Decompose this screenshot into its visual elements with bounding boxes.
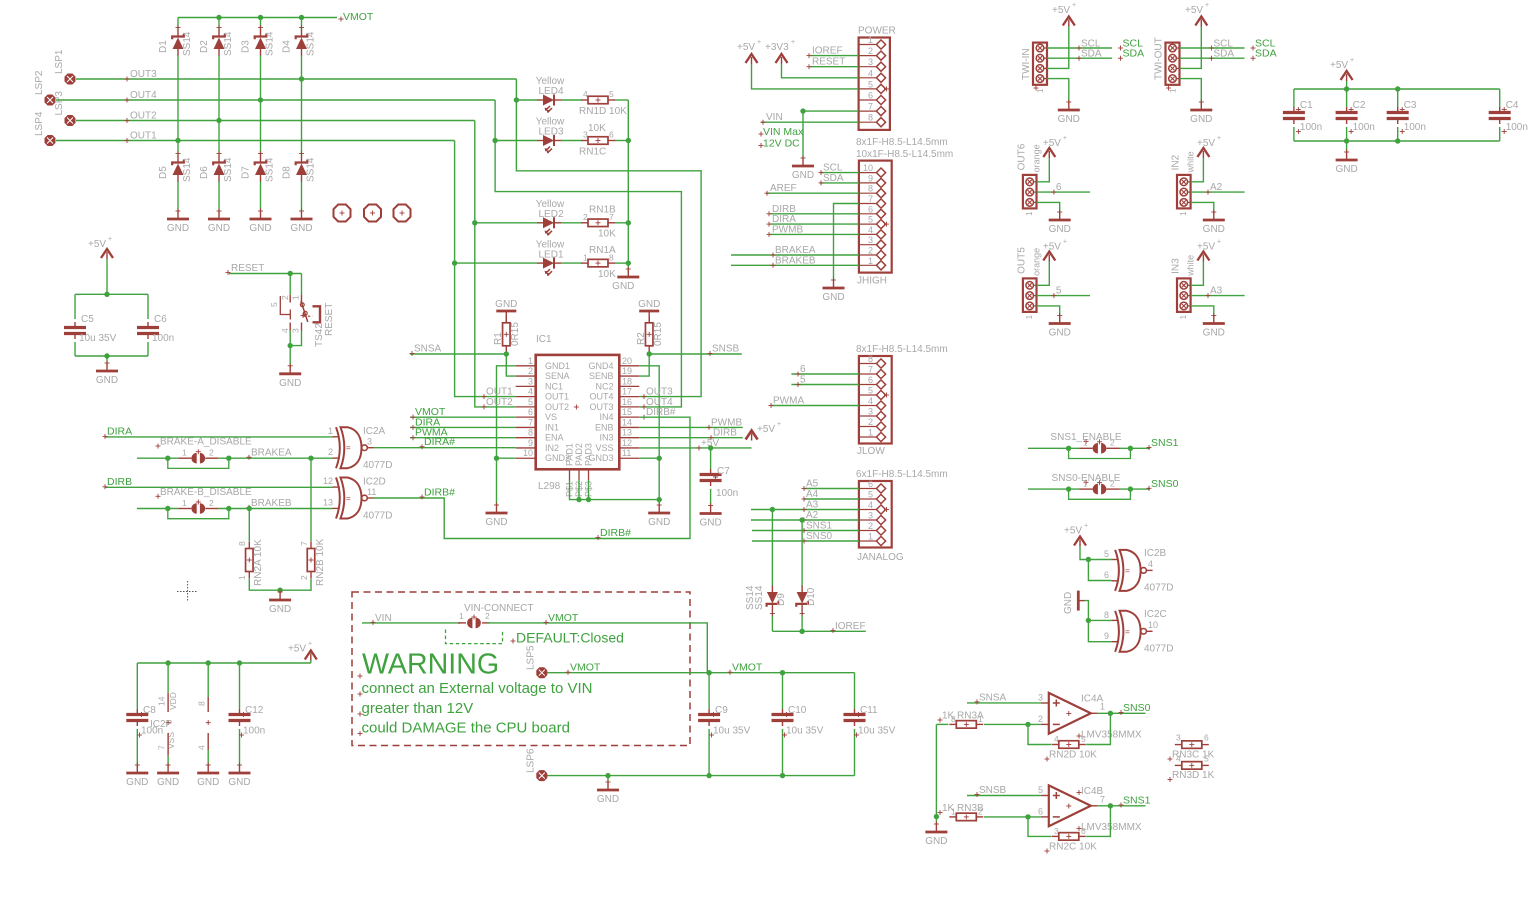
- svg-text:GND: GND: [1049, 328, 1071, 339]
- svg-text:3: 3: [1038, 692, 1043, 702]
- warning dashed box: [352, 592, 690, 746]
- capacitor C6: [137, 314, 174, 344]
- wire SNS1 enable row: [1028, 437, 1179, 450]
- power +5V C1-C4: [1330, 57, 1354, 89]
- svg-text:white: white: [1186, 255, 1196, 277]
- svg-text:L298: L298: [538, 481, 561, 492]
- svg-text:BRAKEA: BRAKEA: [251, 448, 292, 459]
- node dot SNSB R2: [647, 351, 652, 356]
- svg-text:4: 4: [1176, 754, 1181, 764]
- wire RN3A to IC4A: [984, 723, 1041, 725]
- xnor gate IC2D 4077D: [323, 476, 392, 521]
- svg-text:1: 1: [1036, 88, 1045, 93]
- svg-text:SNSB: SNSB: [979, 785, 1007, 796]
- wire DIRB to IC2D: [103, 476, 333, 490]
- wire IOREF from diodes: [772, 621, 865, 633]
- ground LED resistors: [612, 267, 639, 293]
- svg-text:1: 1: [291, 295, 301, 300]
- svg-text:A4: A4: [806, 489, 819, 500]
- svg-text:SDA: SDA: [823, 173, 844, 184]
- svg-text:7: 7: [868, 102, 873, 112]
- wire C1-C4 top rail: [1294, 88, 1500, 90]
- svg-text:+5V: +5V: [1043, 241, 1061, 252]
- diode D1: [158, 25, 193, 56]
- svg-text:RN1B: RN1B: [589, 205, 616, 216]
- xnor gate IC2A 4077D: [328, 426, 392, 471]
- label OUT1 at pin4: [482, 387, 514, 400]
- ic IC4P power pins: [197, 663, 211, 765]
- svg-text:GND: GND: [925, 836, 947, 847]
- svg-text:NC2: NC2: [595, 381, 613, 391]
- svg-text:+: +: [1063, 238, 1067, 245]
- svg-text:GND: GND: [96, 375, 118, 386]
- wire POWER pin7 to GND: [803, 111, 859, 158]
- svg-text:10x1F-H8.5-L14.5mm: 10x1F-H8.5-L14.5mm: [856, 149, 953, 160]
- svg-text:100n: 100n: [1506, 122, 1528, 133]
- svg-text:10: 10: [863, 163, 873, 173]
- svg-text:GND: GND: [1190, 114, 1212, 125]
- svg-text:1: 1: [1025, 211, 1034, 216]
- svg-text:2: 2: [583, 212, 588, 222]
- svg-text:C9: C9: [715, 705, 728, 716]
- wire D9 column: [771, 510, 773, 632]
- wire IC1 pin20 pin11 ground: [639, 366, 659, 505]
- wire PWMA to JLOW pin4: [769, 396, 859, 409]
- svg-text:3: 3: [367, 437, 372, 447]
- svg-text:SNS1: SNS1: [1151, 437, 1179, 449]
- svg-text:5: 5: [1056, 286, 1062, 297]
- svg-text:20: 20: [622, 356, 632, 366]
- node dot pin11 gnd: [657, 456, 662, 461]
- led LED2 Yellow: [536, 199, 565, 236]
- svg-text:C7: C7: [717, 466, 730, 477]
- svg-text:GND: GND: [290, 223, 312, 234]
- pins JHIGH 10-1: [859, 163, 889, 270]
- svg-text:GND: GND: [792, 170, 814, 181]
- svg-text:+5V: +5V: [1197, 241, 1215, 252]
- svg-text:2: 2: [328, 447, 333, 457]
- svg-text:+3V3: +3V3: [765, 42, 789, 53]
- svg-text:3: 3: [868, 235, 873, 245]
- svg-text:SNSA: SNSA: [979, 692, 1007, 703]
- ground op-amp divider: [925, 822, 947, 848]
- svg-text:GND: GND: [1203, 328, 1225, 339]
- svg-text:SNS0: SNS0: [806, 531, 833, 542]
- svg-text:3: 3: [868, 407, 873, 417]
- wire BRAKEB down to RN2A: [248, 509, 250, 542]
- svg-text:GND: GND: [1335, 164, 1357, 175]
- svg-text:C2: C2: [1353, 100, 1366, 111]
- svg-text:OUT4: OUT4: [130, 90, 157, 101]
- svg-text:SNS1: SNS1: [1123, 795, 1151, 807]
- svg-text:5: 5: [868, 215, 873, 225]
- svg-text:IC4B: IC4B: [1081, 786, 1104, 797]
- node dot brakea to RN2B: [308, 456, 313, 461]
- mount hole H3: [394, 205, 411, 222]
- svg-text:+: +: [1217, 238, 1221, 245]
- svg-text:RN1A: RN1A: [589, 245, 616, 256]
- svg-text:LMV358MMX: LMV358MMX: [1081, 730, 1142, 741]
- svg-text:2: 2: [868, 417, 873, 427]
- wire feedback B: [1028, 806, 1110, 837]
- svg-text:A2: A2: [806, 510, 819, 521]
- resistor R1 0R15: [493, 316, 521, 353]
- power +5V for C5 C6: [88, 236, 113, 294]
- capacitor C12 100n: [229, 663, 266, 765]
- svg-text:13: 13: [323, 498, 333, 508]
- svg-text:1: 1: [182, 448, 187, 458]
- svg-text:+5V: +5V: [1330, 60, 1348, 71]
- resistor RN2B 10K: [299, 538, 326, 586]
- svg-text:C6: C6: [154, 314, 167, 325]
- svg-text:2: 2: [209, 498, 214, 508]
- svg-text:ENB: ENB: [595, 422, 614, 432]
- svg-text:+5V: +5V: [1185, 5, 1203, 16]
- svg-text:+: +: [1217, 135, 1221, 142]
- pins POWER 1-8: [859, 35, 889, 127]
- svg-text:+: +: [757, 39, 761, 46]
- wire net 5 to JLOW pin6: [791, 375, 859, 388]
- svg-text:OUT3: OUT3: [589, 402, 613, 412]
- ground under D8: [290, 209, 312, 235]
- svg-text:IC2B: IC2B: [1144, 548, 1167, 559]
- svg-text:LED1: LED1: [538, 250, 563, 261]
- xnor gate IC2C 4077D: [1104, 609, 1173, 654]
- svg-text:GND: GND: [485, 517, 507, 528]
- node dot RN3B left: [934, 814, 939, 819]
- label OUT3 at pin17: [642, 387, 674, 400]
- label warning line1: [358, 680, 593, 697]
- svg-text:OUT3: OUT3: [130, 69, 157, 80]
- svg-text:LSP3: LSP3: [54, 91, 65, 116]
- node dot RN2 gnd: [277, 588, 282, 593]
- wire IC2C inputs: [1085, 601, 1112, 642]
- wire OUT1 route down to pin4: [455, 141, 516, 397]
- wire C1-C4 bottom rail: [1294, 140, 1500, 142]
- node dots top rail: [1344, 86, 1401, 91]
- pad LSP6: [526, 748, 547, 781]
- resistor RN2C 10K: [1045, 826, 1098, 854]
- svg-text:11: 11: [622, 448, 631, 458]
- wire R2 to pin19: [639, 354, 649, 376]
- svg-text:10: 10: [523, 448, 533, 458]
- node dots brakeb jumper: [165, 506, 231, 511]
- svg-text:7: 7: [528, 417, 533, 427]
- ground IC4P: [197, 763, 219, 789]
- node dot IOREF D10: [799, 629, 804, 634]
- svg-text:2: 2: [485, 611, 490, 621]
- svg-text:6: 6: [528, 407, 533, 417]
- node dots bottom rail: [1344, 138, 1401, 143]
- resistor RN3D 1K: [1168, 754, 1215, 783]
- wire VIN to POWER pin8: [761, 112, 859, 125]
- svg-text:SS14: SS14: [306, 31, 317, 56]
- svg-text:3: 3: [528, 376, 533, 386]
- svg-text:D3: D3: [241, 40, 252, 53]
- wire PWMB from pin14: [639, 417, 743, 430]
- svg-text:10K: 10K: [598, 269, 616, 280]
- svg-text:connect an External voltage to: connect an External voltage to VIN: [362, 680, 593, 697]
- wire R1 to pin2: [506, 354, 515, 376]
- svg-text:SS14: SS14: [223, 157, 234, 182]
- svg-text:8x1F-H8.5-L14.5mm: 8x1F-H8.5-L14.5mm: [856, 137, 948, 148]
- node dots SNS1 jumper: [1066, 446, 1133, 451]
- node dots bottom cap rail: [605, 773, 785, 778]
- power +5V at POWER: [737, 39, 859, 89]
- svg-text:5: 5: [609, 89, 614, 99]
- wire A4 to JANALOG pin5: [802, 489, 859, 502]
- jumper BRAKE-B_DISABLE: [168, 498, 229, 519]
- svg-text:LSP1: LSP1: [54, 49, 65, 74]
- wire RN3A left gnd: [936, 724, 948, 824]
- svg-text:+5V: +5V: [88, 239, 106, 250]
- capacitor C10 10u: [772, 673, 824, 776]
- svg-text:OUT6: OUT6: [1016, 143, 1027, 170]
- wire BRAKEB row: [137, 498, 333, 510]
- pins JANALOG 6-1: [859, 479, 889, 546]
- svg-text:2: 2: [209, 448, 214, 458]
- node dot reset bottom: [288, 343, 293, 348]
- resistor RN3A 1K: [938, 711, 985, 729]
- svg-text:VMOT: VMOT: [343, 11, 374, 23]
- svg-text:SS14: SS14: [265, 157, 276, 182]
- svg-text:JANALOG: JANALOG: [857, 552, 904, 563]
- svg-text:A5: A5: [806, 479, 819, 490]
- svg-text:GND: GND: [638, 299, 660, 310]
- svg-text:GND: GND: [612, 281, 634, 292]
- wire SNS0 to JANALOG pin1: [752, 531, 859, 544]
- svg-text:IOREF: IOREF: [835, 621, 866, 632]
- led LED3 Yellow: [536, 117, 565, 154]
- wire SDA to JHIGH pin9: [819, 173, 859, 186]
- svg-text:GND: GND: [208, 223, 230, 234]
- svg-text:GND: GND: [1049, 224, 1071, 235]
- opamp IC4B LMV358MMX: [1038, 785, 1142, 833]
- node dot pin10 gnd: [494, 456, 499, 461]
- svg-text:6: 6: [1081, 826, 1086, 836]
- wire OUT3: [76, 69, 516, 82]
- wire +5V rail bottom left: [137, 659, 310, 663]
- ground C1-C4: [1335, 150, 1357, 176]
- svg-text:12: 12: [622, 438, 632, 448]
- connector OUT6 header: [1016, 143, 1041, 216]
- wire VMOT to pin6: [410, 406, 516, 420]
- wire LED3 row: [495, 140, 628, 142]
- wire D10 column: [801, 520, 803, 631]
- svg-text:12V DC: 12V DC: [763, 138, 800, 150]
- ground C8: [126, 763, 148, 789]
- node junction dots on VMOT rail: [216, 15, 304, 20]
- svg-text:RESET: RESET: [231, 263, 264, 274]
- svg-text:GND: GND: [822, 292, 844, 303]
- svg-text:4077D: 4077D: [363, 460, 392, 471]
- power +5V IC2B: [1064, 523, 1088, 560]
- wire DIRA to JHIGH pin5: [767, 214, 859, 227]
- svg-text:VIN Max: VIN Max: [763, 126, 804, 138]
- ground JHIGH: [822, 278, 844, 304]
- svg-text:DIRA: DIRA: [107, 425, 132, 437]
- svg-text:4: 4: [868, 500, 873, 510]
- wire A5 to JANALOG pin6: [802, 479, 859, 492]
- power +5V TWI-IN: [1047, 2, 1076, 68]
- svg-text:D7: D7: [241, 166, 252, 179]
- svg-text:IC2A: IC2A: [363, 426, 386, 437]
- svg-text:SNSB: SNSB: [712, 344, 740, 355]
- svg-text:RN2A 10K: RN2A 10K: [253, 539, 264, 586]
- led LED1 Yellow: [536, 240, 565, 277]
- power +5V arrow at pin12: [746, 421, 781, 441]
- ground TWI-IN: [1058, 100, 1080, 126]
- node dot fb A: [1025, 722, 1030, 727]
- wire TWI-OUT pin4 gnd: [1180, 79, 1202, 102]
- pad LSP4: [34, 111, 55, 145]
- wire C7 bottom: [710, 489, 712, 506]
- svg-text:GND: GND: [228, 777, 250, 788]
- svg-text:BRAKEB: BRAKEB: [775, 255, 816, 266]
- mount hole H2: [364, 205, 381, 222]
- wire lower diode column D7: [260, 100, 262, 211]
- wire IC2B inputs: [1088, 560, 1111, 581]
- svg-text:VMOT: VMOT: [732, 662, 763, 674]
- ground above R2: [638, 299, 660, 323]
- svg-text:100n: 100n: [152, 333, 174, 344]
- wire LED resistor common vertical: [627, 100, 629, 269]
- connector JHIGH header: [856, 149, 953, 287]
- svg-text:SDA: SDA: [1123, 48, 1145, 60]
- wire lower diode column D5: [177, 141, 179, 212]
- svg-text:+: +: [108, 236, 112, 243]
- node dot SNSA R1: [504, 351, 509, 356]
- svg-text:SS14: SS14: [223, 31, 234, 56]
- capacitor C7 100n: [700, 466, 739, 499]
- svg-text:0R15: 0R15: [510, 322, 521, 346]
- resistor RN1D 10K: [579, 89, 627, 117]
- wire diode column D1: [177, 18, 179, 141]
- svg-text:6: 6: [868, 91, 873, 101]
- svg-text:+5V: +5V: [737, 42, 755, 53]
- wire OUT1: [56, 131, 455, 144]
- resistor R2 0R15: [636, 316, 664, 353]
- svg-text:IN3: IN3: [599, 433, 613, 443]
- svg-text:D9: D9: [776, 593, 787, 606]
- svg-text:IOREF: IOREF: [812, 46, 843, 57]
- resistor RN1B 10K: [581, 205, 616, 240]
- svg-text:3: 3: [291, 328, 301, 333]
- node dot D9 on A3: [770, 507, 775, 512]
- svg-text:15: 15: [622, 407, 632, 417]
- svg-text:11: 11: [367, 487, 376, 497]
- svg-text:SS14: SS14: [182, 157, 193, 182]
- wire A2 to JANALOG pin3: [751, 510, 859, 523]
- svg-text:PAD2: PAD2: [574, 443, 584, 466]
- svg-text:+: +: [308, 641, 312, 648]
- svg-text:TWI-OUT: TWI-OUT: [1154, 37, 1165, 80]
- svg-text:OUT5: OUT5: [1016, 247, 1027, 274]
- svg-text:D1: D1: [158, 40, 169, 53]
- svg-text:18: 18: [622, 376, 632, 386]
- ground OUT5: [1049, 313, 1071, 339]
- wire BRAKEA down to RN2B: [310, 458, 312, 541]
- svg-text:3: 3: [868, 511, 873, 521]
- svg-text:5: 5: [868, 79, 873, 89]
- label OUT2 at pin5: [482, 397, 514, 410]
- svg-text:DEFAULT:Closed: DEFAULT:Closed: [516, 630, 624, 646]
- svg-text:10K: 10K: [598, 229, 616, 240]
- wire PWMA to pin8: [410, 427, 516, 441]
- label SNS1_ENABLE: [1050, 432, 1121, 444]
- wire DIRA to pin7: [410, 416, 516, 430]
- ground C12: [228, 763, 250, 789]
- pad LSP5: [526, 645, 547, 678]
- svg-text:R1: R1: [493, 332, 504, 345]
- svg-text:GND: GND: [597, 794, 619, 805]
- svg-text:19: 19: [622, 366, 632, 376]
- origin crosshair: [177, 581, 198, 602]
- svg-text:5: 5: [868, 386, 873, 396]
- svg-text:13: 13: [622, 428, 632, 438]
- svg-text:C1: C1: [1300, 100, 1313, 111]
- svg-text:VIN: VIN: [375, 613, 392, 624]
- wire RN2A RN2B to gnd: [249, 579, 311, 592]
- svg-text:+: +: [1350, 57, 1354, 64]
- svg-text:GND1: GND1: [545, 361, 570, 371]
- svg-text:NC1: NC1: [545, 381, 563, 391]
- resistor RN3C 1K: [1168, 733, 1215, 762]
- svg-text:+5V: +5V: [1043, 138, 1061, 149]
- svg-text:white: white: [1186, 151, 1196, 173]
- wire AREF to JHIGH pin8: [765, 183, 859, 196]
- svg-text:4: 4: [868, 225, 873, 235]
- label warning line3: [358, 719, 570, 736]
- connector TWI-IN: [1021, 43, 1047, 93]
- resistor RN3B 1K: [938, 803, 985, 821]
- wire DIRA to IC2A: [103, 425, 333, 439]
- svg-text:2: 2: [528, 366, 533, 376]
- svg-text:IN1: IN1: [545, 422, 559, 432]
- wire 5 from OUT5: [1037, 286, 1091, 299]
- svg-text:ENA: ENA: [545, 433, 564, 443]
- svg-text:RN1D 10K: RN1D 10K: [579, 106, 627, 117]
- svg-text:PAD3: PAD3: [584, 443, 594, 466]
- svg-text:VIN-CONNECT: VIN-CONNECT: [464, 603, 533, 614]
- svg-text:OUT1: OUT1: [130, 131, 157, 142]
- svg-text:SNSA: SNSA: [414, 344, 442, 355]
- svg-text:100n: 100n: [1353, 122, 1375, 133]
- wire lower diode column D6: [218, 121, 220, 212]
- label warning line2: [358, 700, 474, 717]
- svg-text:=: =: [346, 494, 351, 503]
- svg-text:VS: VS: [545, 412, 557, 422]
- svg-text:SNS0: SNS0: [1123, 702, 1151, 714]
- wire C5 C6 top rail: [75, 294, 148, 319]
- svg-text:C8: C8: [143, 705, 156, 716]
- node dot IC4A out: [1108, 711, 1113, 716]
- svg-text:5: 5: [269, 302, 279, 307]
- wire DIRA# from IC2A out: [374, 436, 516, 449]
- wire OUT3 route to LED4 and pin17: [516, 79, 701, 397]
- svg-text:2: 2: [1038, 714, 1043, 724]
- diode D3: [241, 25, 276, 56]
- wire OUT2: [76, 111, 475, 124]
- svg-text:VMOT: VMOT: [570, 662, 601, 674]
- svg-text:orange: orange: [1031, 144, 1041, 172]
- capacitor C4 100n: [1489, 89, 1528, 141]
- connector JLOW header: [856, 344, 948, 457]
- svg-text:1K RN3B: 1K RN3B: [942, 803, 984, 814]
- svg-text:D2: D2: [199, 40, 210, 53]
- svg-text:2: 2: [280, 295, 290, 300]
- connector TWI-OUT: [1154, 37, 1180, 93]
